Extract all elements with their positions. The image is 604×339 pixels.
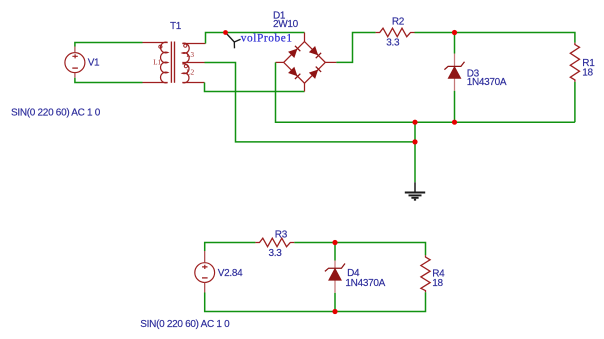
node dot ground rail: [412, 120, 417, 125]
resistor R4: [421, 255, 430, 292]
D1 diode bottom-right (anode bottom, cathode right): [310, 67, 321, 78]
svg-text:R3: R3: [275, 230, 288, 241]
bridge rectifier D1 diamond body: [276, 33, 337, 92]
zener diode D4: [325, 243, 345, 312]
wire L2 bottom to bridge bottom: [205, 83, 305, 92]
L1 polarity dot: [159, 45, 162, 48]
transformer secondary winding L3: [182, 43, 205, 63]
resistor R2: [376, 28, 415, 37]
svg-text:18: 18: [432, 278, 443, 289]
wire V2 top to rail: [205, 243, 256, 252]
svg-text:1N4370A: 1N4370A: [345, 278, 385, 289]
node dot R3/D4: [332, 240, 337, 245]
wire R2 to top-right corner: [415, 33, 575, 43]
ground symbol: [405, 182, 425, 199]
wire transformer mid tap to ground node: [205, 63, 416, 142]
svg-text:L2: L2: [186, 69, 194, 77]
wire V2 bottom to rail: [205, 293, 335, 312]
wire bottom rail to R4: [335, 292, 426, 311]
L2 polarity dot: [184, 65, 187, 68]
svg-text:2W10: 2W10: [273, 19, 299, 30]
wire bridge left vertex to ground rail: [276, 62, 575, 122]
transformer core: [171, 42, 174, 83]
wire R3 to R4 top rail: [294, 243, 425, 256]
wire bridge right vertex up to R2: [336, 33, 375, 63]
D1 diode top-left (anode left, cathode top): [289, 46, 300, 57]
svg-text:L1: L1: [153, 59, 161, 67]
svg-text:3.3: 3.3: [386, 38, 400, 49]
volProbe1 probe symbol: [226, 33, 241, 49]
wire ground stem: [414, 122, 416, 182]
D1 diode top-right (anode top, cathode right): [310, 47, 321, 58]
svg-text:3.3: 3.3: [269, 248, 283, 259]
resistor R3: [255, 238, 294, 247]
D1 diode bottom-left (anode left, cathode bottom): [289, 68, 300, 79]
node dot D3 bottom: [452, 120, 457, 125]
wire V1 bottom to transformer primary: [75, 78, 143, 83]
wire L3 top to bridge top node: [206, 33, 305, 44]
transformer T1 primary winding L1: [143, 42, 168, 83]
svg-text:1N4370A: 1N4370A: [467, 77, 507, 88]
svg-text:R2: R2: [392, 17, 405, 28]
wire R1 bottom to ground rail: [574, 82, 576, 122]
L3 polarity dot: [184, 44, 187, 47]
svg-text:18: 18: [582, 67, 593, 78]
svg-text:L3: L3: [186, 51, 194, 59]
voltage source V2: [195, 251, 215, 293]
zener diode D3: [444, 33, 464, 123]
svg-text:V1: V1: [88, 57, 100, 68]
transformer secondary winding L2: [182, 64, 204, 83]
svg-text:SIN(0 220 60) AC 1 0: SIN(0 220 60) AC 1 0: [140, 319, 230, 330]
svg-text:T1: T1: [170, 21, 182, 32]
resistor R1: [570, 43, 579, 82]
volProbe1 node dot: [223, 30, 228, 35]
node dot D4 bottom: [332, 309, 337, 314]
svg-text:volProbe1: volProbe1: [241, 33, 293, 45]
wire V1 top to transformer primary: [75, 43, 143, 47]
node dot mid-tap / ground: [412, 139, 417, 144]
voltage source V1: [65, 47, 85, 78]
svg-text:V2.84: V2.84: [218, 268, 243, 279]
svg-text:SIN(0 220 60) AC 1 0: SIN(0 220 60) AC 1 0: [11, 108, 101, 119]
node dot R2/D3: [452, 30, 457, 35]
